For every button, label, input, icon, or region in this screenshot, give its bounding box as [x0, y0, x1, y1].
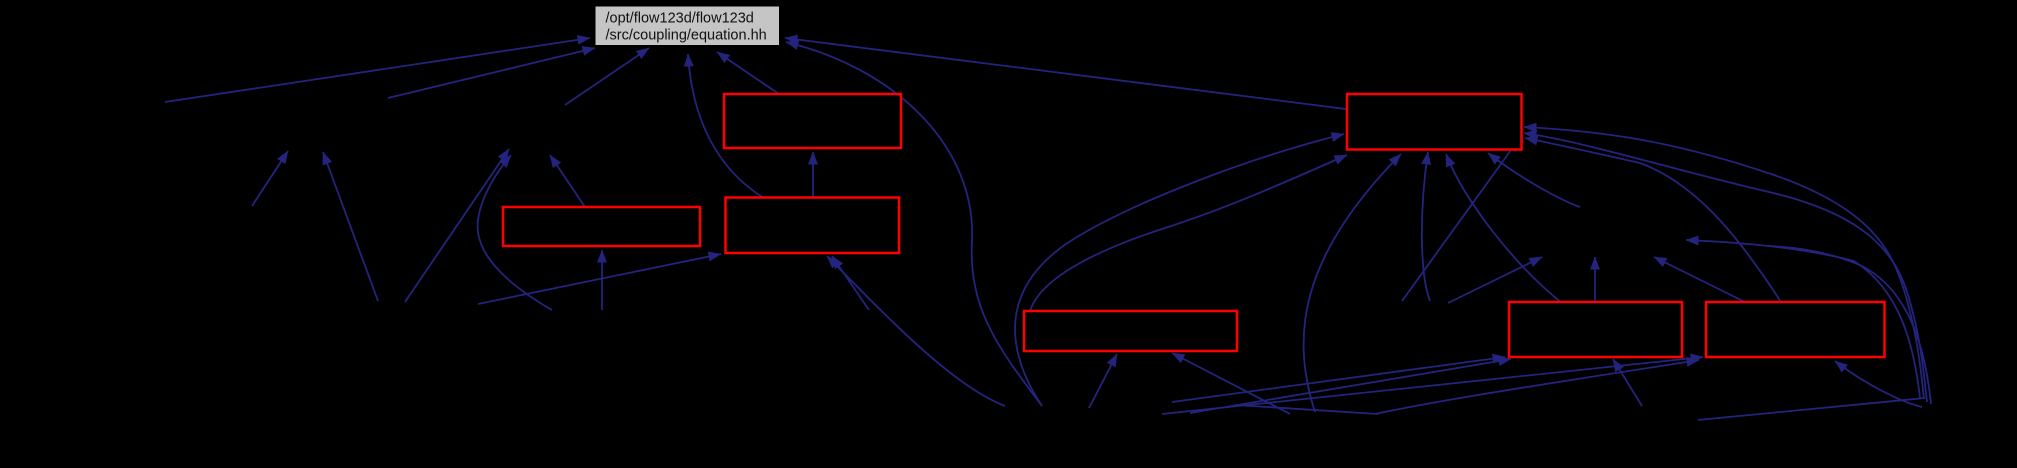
wire: second strand to node L2r area — [1768, 246, 1931, 404]
wire: bottom segment joining far-right node — [1698, 398, 1925, 420]
wire: deep node long line to box G corner — [1162, 357, 1703, 414]
wire: far-left node to equation.hh — [165, 38, 590, 102]
wire: box F top to box D bottom right — [1446, 154, 1562, 303]
svg-text:/src/coupling/equation.hh: /src/coupling/equation.hh — [606, 28, 767, 44]
wire: deep node arc to equation.hh right side — [786, 42, 1042, 406]
wire: mid-left node to L1a — [252, 151, 288, 206]
wire: deep node curve to box G corner 2 — [1375, 360, 1699, 414]
wire: deep node curve to box D left edge — [1015, 134, 1344, 406]
wire: far-right node arc 1 to box D right edge — [1524, 127, 1924, 399]
wire: node L3a to L1a — [323, 152, 378, 301]
wire: box E top curve to box D corner — [1030, 155, 1347, 311]
wire: box D left to equation.hh — [785, 38, 1346, 109]
wire: deep node curve to box C bottom — [827, 256, 1005, 406]
wire: box G top to node L2r — [1654, 257, 1745, 302]
svg-text:/opt/flow123d/flow123d: /opt/flow123d/flow123d — [606, 11, 754, 27]
wire: node L3b to box B — [601, 250, 603, 310]
node box A (red) — [724, 94, 901, 148]
wire: box C top curving to equation.hh — [688, 54, 764, 198]
wire: node L1b top to equation.hh — [565, 48, 649, 105]
wire: deep node to box F corner 1 — [1172, 357, 1505, 402]
node box E (red) — [1024, 311, 1237, 351]
wire: node L1a top to equation.hh — [388, 48, 595, 98]
wire: far-right node arc to node L2r right edge — [1686, 240, 1920, 398]
wire: node L4b arc to box D bottom — [1304, 154, 1401, 412]
wire: far-right node hook to box G bottom — [1835, 361, 1922, 407]
wire: deep node straight to box C bottom — [832, 256, 869, 310]
wire: node L3a to box C corner — [478, 254, 721, 304]
wire: box C top to box A — [812, 152, 814, 198]
wire: node L3c to node L2r — [1448, 257, 1542, 303]
wire: node L2r to box D bottom — [1488, 153, 1580, 207]
node box G (red) — [1706, 302, 1885, 357]
wire: box G top curve to box D bottom — [1525, 138, 1781, 302]
node box D (red) — [1347, 94, 1522, 150]
wire: box B top to L1b — [550, 155, 585, 207]
wire: box A top to equation.hh — [717, 52, 779, 94]
wire: node below to box F bottom — [1613, 359, 1642, 406]
wire: node L3b arc to L1b — [478, 155, 552, 310]
wire: node L3c to box D bottom — [1422, 152, 1430, 301]
node box C (red) — [726, 198, 900, 254]
wire: node L4b to box E bottom — [1172, 353, 1290, 414]
node equation.hh (grey current node) — [596, 7, 780, 46]
wire: box F top to node L2r — [1594, 257, 1596, 302]
wire: node L3c diagonal to box D right edge — [1402, 139, 1519, 301]
node box F (red) — [1509, 302, 1682, 357]
wire: far-right node arc 2 to box D right edge — [1524, 133, 1927, 402]
wire: deep node to box F corner 2 — [1190, 359, 1511, 413]
wire: node L4a to box E bottom — [1089, 354, 1117, 408]
node box B (red) — [503, 207, 700, 246]
wire: bottom short segment — [1235, 405, 1378, 414]
wire: node L3a to L1b — [405, 149, 509, 302]
